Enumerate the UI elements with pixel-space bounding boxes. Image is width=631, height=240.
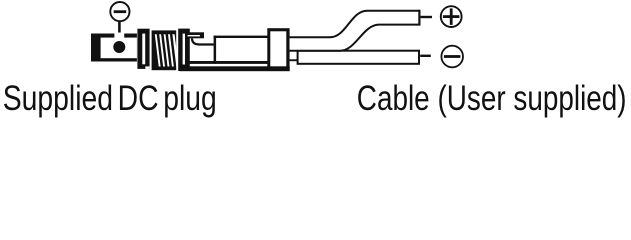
top bare wire	[421, 16, 432, 18]
inner sleeve	[214, 36, 268, 64]
body bottom wall	[180, 66, 290, 71]
body cavity floor line	[187, 61, 268, 64]
polarity mark: circled minus above plug tip	[110, 2, 129, 21]
top cable (curved, to plus)	[290, 10, 420, 51]
bottom bare wire	[420, 55, 431, 57]
circled minus terminal	[441, 46, 463, 68]
svg-text:Supplied DC plug: Supplied DC plug	[3, 78, 217, 118]
circled plus terminal	[441, 6, 462, 27]
bottom cable (outer jacket)	[297, 50, 420, 65]
center pin dot	[113, 41, 125, 53]
collar ring 2 (body front)	[178, 29, 190, 71]
cable entry stub	[290, 49, 300, 61]
rear block (cable clamp)	[267, 28, 289, 71]
svg-text:Cable (User supplied): Cable (User supplied)	[357, 78, 627, 118]
coiled strain relief	[152, 30, 179, 70]
lead line from minus mark to pin dot	[118, 21, 121, 43]
tip barrel (black C-shape)	[91, 33, 137, 62]
collar ring 1	[137, 29, 149, 69]
inner contact hook	[186, 32, 214, 44]
